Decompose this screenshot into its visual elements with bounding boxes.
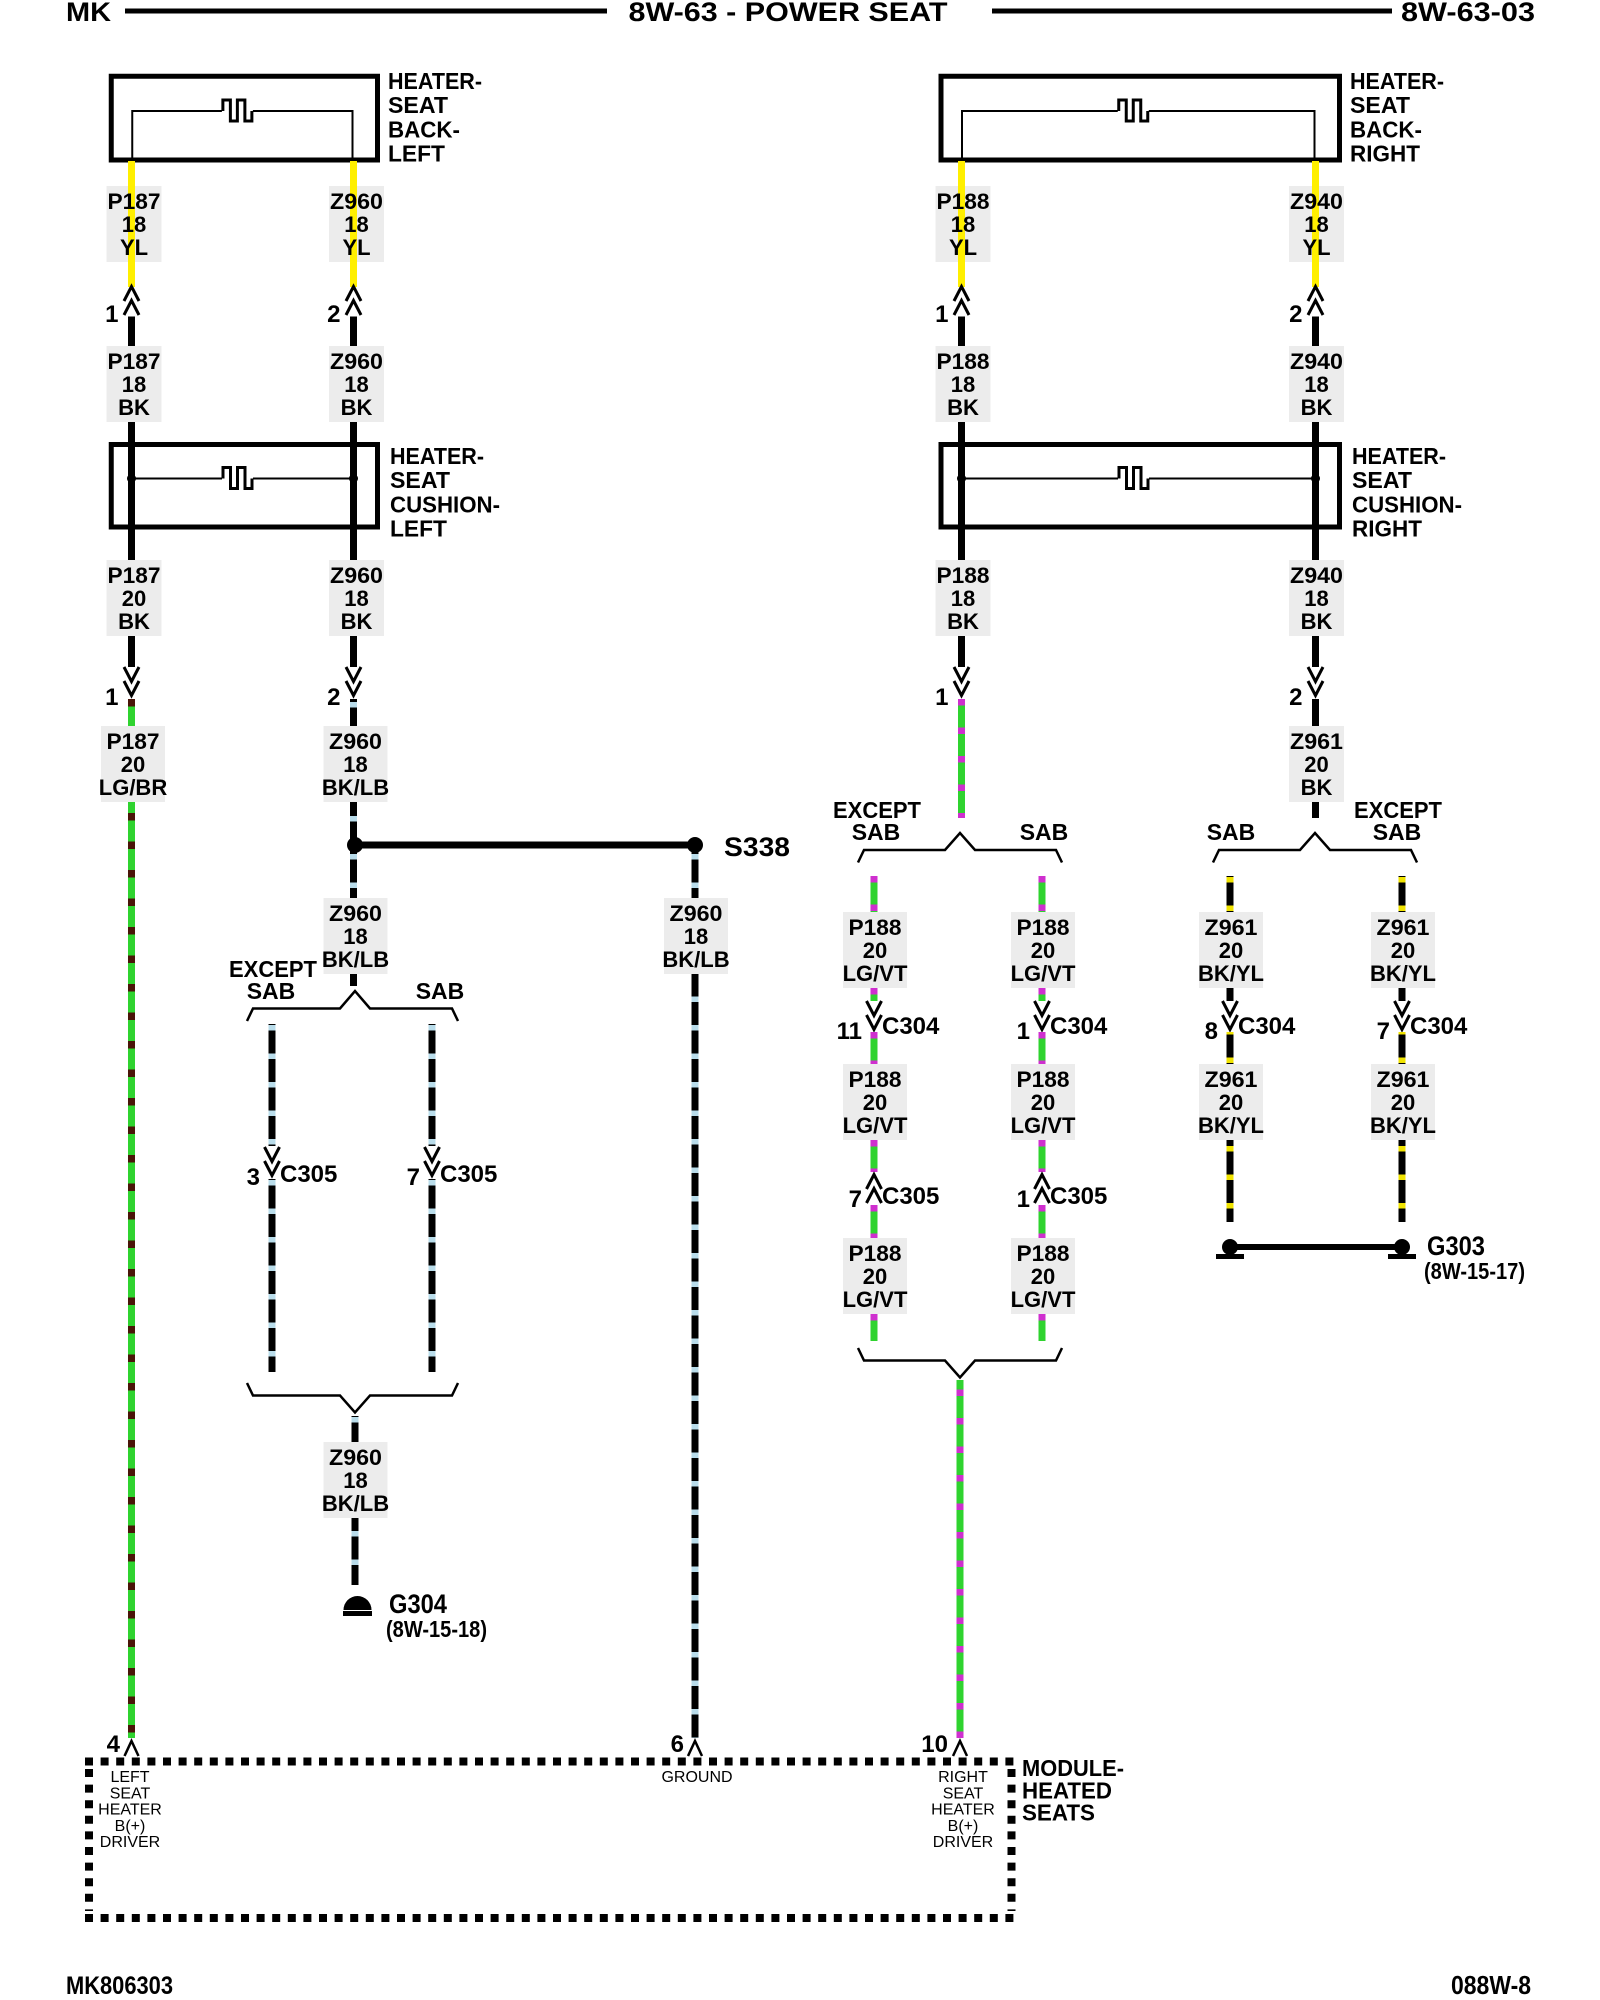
svg-text:BK: BK xyxy=(118,395,150,420)
svg-text:HEATER-: HEATER- xyxy=(390,443,484,469)
svg-text:1: 1 xyxy=(105,684,118,711)
svg-text:P187: P187 xyxy=(108,563,161,588)
svg-text:1: 1 xyxy=(935,684,948,711)
svg-text:BK: BK xyxy=(341,609,373,634)
svg-text:Z940: Z940 xyxy=(1290,563,1343,588)
svg-text:BK/LB: BK/LB xyxy=(322,947,389,972)
svg-text:P187: P187 xyxy=(107,729,160,754)
svg-text:SAB: SAB xyxy=(247,978,296,1004)
svg-text:(8W-15-18): (8W-15-18) xyxy=(386,1616,487,1642)
svg-text:Z961: Z961 xyxy=(1290,729,1343,754)
svg-text:YL: YL xyxy=(120,235,148,260)
svg-text:7: 7 xyxy=(407,1164,420,1191)
svg-text:C305: C305 xyxy=(882,1183,939,1210)
svg-text:Z940: Z940 xyxy=(1290,189,1343,214)
svg-text:P188: P188 xyxy=(849,915,902,940)
svg-text:LG/VT: LG/VT xyxy=(1011,1287,1076,1312)
svg-text:LEFT: LEFT xyxy=(390,516,447,542)
svg-text:HEATER: HEATER xyxy=(931,1802,995,1819)
svg-text:20: 20 xyxy=(863,1264,887,1289)
svg-text:SAB: SAB xyxy=(1020,819,1069,845)
svg-text:SAB: SAB xyxy=(1207,819,1256,845)
svg-text:(8W-15-17): (8W-15-17) xyxy=(1424,1258,1525,1284)
svg-text:SEAT: SEAT xyxy=(1350,92,1410,118)
svg-text:C305: C305 xyxy=(280,1161,337,1188)
svg-text:C304: C304 xyxy=(1238,1013,1296,1040)
svg-text:20: 20 xyxy=(1304,752,1328,777)
svg-text:2: 2 xyxy=(1289,684,1302,711)
svg-text:3: 3 xyxy=(247,1164,260,1191)
svg-text:P188: P188 xyxy=(1017,1241,1070,1266)
svg-text:C304: C304 xyxy=(882,1013,940,1040)
svg-text:20: 20 xyxy=(1219,1090,1243,1115)
svg-text:1: 1 xyxy=(105,301,118,328)
svg-text:LG/VT: LG/VT xyxy=(1011,1113,1076,1138)
svg-text:18: 18 xyxy=(1304,212,1328,237)
svg-text:BK: BK xyxy=(947,609,979,634)
svg-text:SEAT: SEAT xyxy=(390,467,450,493)
svg-text:088W-8: 088W-8 xyxy=(1451,1972,1531,2000)
svg-text:BK: BK xyxy=(1301,609,1333,634)
svg-text:20: 20 xyxy=(1391,938,1415,963)
svg-text:18: 18 xyxy=(122,372,146,397)
svg-text:HEATER: HEATER xyxy=(98,1802,162,1819)
svg-text:YL: YL xyxy=(949,235,977,260)
svg-text:BK/LB: BK/LB xyxy=(322,1491,389,1516)
svg-text:MK: MK xyxy=(66,0,112,27)
svg-text:LG/VT: LG/VT xyxy=(843,961,908,986)
svg-text:G304: G304 xyxy=(389,1589,447,1619)
svg-text:BK: BK xyxy=(947,395,979,420)
svg-text:SAB: SAB xyxy=(1373,819,1422,845)
svg-text:18: 18 xyxy=(122,212,146,237)
svg-text:C305: C305 xyxy=(440,1161,497,1188)
svg-text:LG/VT: LG/VT xyxy=(1011,961,1076,986)
svg-text:BK/LB: BK/LB xyxy=(322,775,389,800)
svg-text:HEATER-: HEATER- xyxy=(388,68,482,94)
svg-text:1: 1 xyxy=(935,301,948,328)
svg-text:1: 1 xyxy=(1017,1186,1030,1213)
svg-text:BK: BK xyxy=(341,395,373,420)
svg-text:BK/YL: BK/YL xyxy=(1198,961,1264,986)
svg-text:P188: P188 xyxy=(849,1241,902,1266)
svg-text:BK/YL: BK/YL xyxy=(1198,1113,1264,1138)
svg-text:SEAT: SEAT xyxy=(943,1785,984,1802)
svg-text:SEATS: SEATS xyxy=(1022,1800,1095,1826)
svg-text:SEAT: SEAT xyxy=(388,92,448,118)
svg-text:P188: P188 xyxy=(1017,915,1070,940)
svg-text:SAB: SAB xyxy=(416,978,465,1004)
svg-text:Z961: Z961 xyxy=(1377,1067,1430,1092)
svg-text:7: 7 xyxy=(1377,1018,1390,1045)
svg-text:20: 20 xyxy=(121,752,145,777)
svg-text:MK806303: MK806303 xyxy=(66,1972,173,2000)
svg-text:DRIVER: DRIVER xyxy=(933,1834,993,1851)
svg-text:Z961: Z961 xyxy=(1377,915,1430,940)
svg-text:18: 18 xyxy=(343,752,367,777)
svg-text:10: 10 xyxy=(921,1731,948,1758)
svg-text:HEATER-: HEATER- xyxy=(1352,443,1446,469)
svg-text:LG/VT: LG/VT xyxy=(843,1287,908,1312)
svg-text:P188: P188 xyxy=(1017,1067,1070,1092)
svg-text:S338: S338 xyxy=(724,832,790,862)
svg-text:BK/YL: BK/YL xyxy=(1370,1113,1436,1138)
svg-text:GROUND: GROUND xyxy=(661,1769,732,1786)
svg-text:SEAT: SEAT xyxy=(1352,467,1412,493)
svg-text:RIGHT: RIGHT xyxy=(1350,141,1420,167)
svg-text:18: 18 xyxy=(343,924,367,949)
svg-text:20: 20 xyxy=(863,938,887,963)
svg-text:6: 6 xyxy=(671,1731,684,1758)
svg-text:BK/YL: BK/YL xyxy=(1370,961,1436,986)
svg-text:11: 11 xyxy=(837,1018,862,1045)
svg-text:HEATER-: HEATER- xyxy=(1350,68,1444,94)
svg-text:BACK-: BACK- xyxy=(1350,116,1422,142)
svg-text:Z960: Z960 xyxy=(670,901,723,926)
svg-text:8W-63-03: 8W-63-03 xyxy=(1401,0,1535,27)
svg-text:20: 20 xyxy=(1391,1090,1415,1115)
svg-text:RIGHT: RIGHT xyxy=(938,1769,988,1786)
svg-text:C305: C305 xyxy=(1050,1183,1107,1210)
svg-text:P187: P187 xyxy=(108,189,161,214)
svg-text:BK: BK xyxy=(118,609,150,634)
svg-text:20: 20 xyxy=(1031,938,1055,963)
svg-text:C304: C304 xyxy=(1050,1013,1108,1040)
svg-text:18: 18 xyxy=(951,372,975,397)
svg-text:SAB: SAB xyxy=(852,819,901,845)
svg-text:Z940: Z940 xyxy=(1290,349,1343,374)
svg-text:C304: C304 xyxy=(1410,1013,1468,1040)
svg-text:Z960: Z960 xyxy=(330,349,383,374)
svg-text:Z961: Z961 xyxy=(1205,1067,1258,1092)
svg-text:BK: BK xyxy=(1301,395,1333,420)
svg-text:P187: P187 xyxy=(108,349,161,374)
svg-text:20: 20 xyxy=(1031,1090,1055,1115)
svg-text:LG/VT: LG/VT xyxy=(843,1113,908,1138)
svg-text:4: 4 xyxy=(107,1731,121,1758)
svg-text:SEAT: SEAT xyxy=(110,1785,151,1802)
svg-text:18: 18 xyxy=(1304,586,1328,611)
svg-text:LEFT: LEFT xyxy=(388,141,445,167)
svg-text:DRIVER: DRIVER xyxy=(100,1834,160,1851)
svg-text:Z961: Z961 xyxy=(1205,915,1258,940)
svg-text:18: 18 xyxy=(344,212,368,237)
svg-text:G303: G303 xyxy=(1427,1231,1485,1261)
svg-text:LEFT: LEFT xyxy=(110,1769,149,1786)
svg-text:BK/LB: BK/LB xyxy=(662,947,729,972)
svg-text:18: 18 xyxy=(344,586,368,611)
svg-text:P188: P188 xyxy=(937,563,990,588)
svg-text:18: 18 xyxy=(951,586,975,611)
svg-text:YL: YL xyxy=(1302,235,1330,260)
svg-text:18: 18 xyxy=(684,924,708,949)
svg-text:Z960: Z960 xyxy=(329,901,382,926)
svg-text:20: 20 xyxy=(1031,1264,1055,1289)
svg-text:BK: BK xyxy=(1301,775,1333,800)
svg-text:B(+): B(+) xyxy=(115,1818,146,1835)
svg-text:20: 20 xyxy=(1219,938,1243,963)
svg-text:LG/BR: LG/BR xyxy=(99,775,168,800)
svg-text:18: 18 xyxy=(951,212,975,237)
svg-text:P188: P188 xyxy=(937,349,990,374)
svg-text:P188: P188 xyxy=(849,1067,902,1092)
svg-text:18: 18 xyxy=(1304,372,1328,397)
svg-text:CUSHION-: CUSHION- xyxy=(1352,491,1462,517)
svg-text:Z960: Z960 xyxy=(330,563,383,588)
svg-text:Z960: Z960 xyxy=(329,1445,382,1470)
svg-text:20: 20 xyxy=(122,586,146,611)
svg-text:18: 18 xyxy=(343,1468,367,1493)
svg-text:2: 2 xyxy=(1289,301,1302,328)
svg-text:2: 2 xyxy=(327,301,340,328)
svg-text:CUSHION-: CUSHION- xyxy=(390,491,500,517)
svg-text:P188: P188 xyxy=(937,189,990,214)
svg-text:20: 20 xyxy=(863,1090,887,1115)
svg-text:8W-63 - POWER SEAT: 8W-63 - POWER SEAT xyxy=(629,0,949,27)
svg-text:B(+): B(+) xyxy=(948,1818,979,1835)
svg-text:BACK-: BACK- xyxy=(388,116,460,142)
svg-text:1: 1 xyxy=(1017,1018,1030,1045)
svg-text:Z960: Z960 xyxy=(330,189,383,214)
svg-text:2: 2 xyxy=(327,684,340,711)
svg-text:7: 7 xyxy=(849,1186,862,1213)
svg-text:Z960: Z960 xyxy=(329,729,382,754)
svg-text:YL: YL xyxy=(342,235,370,260)
svg-text:RIGHT: RIGHT xyxy=(1352,516,1422,542)
svg-text:8: 8 xyxy=(1205,1018,1218,1045)
svg-text:18: 18 xyxy=(344,372,368,397)
